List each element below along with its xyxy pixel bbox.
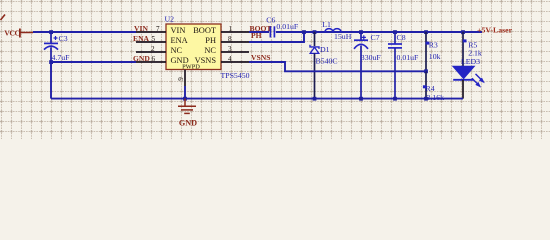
ground symbol GND: [178, 99, 197, 128]
svg-text:0.01uF: 0.01uF: [276, 22, 299, 31]
svg-text:R3: R3: [429, 40, 438, 49]
pin 7 VIN: [136, 31, 166, 33]
capacitor C3: [44, 32, 70, 62]
wire switch and output node: [276, 31, 482, 33]
svg-text:GND: GND: [133, 54, 150, 63]
LED LED3: [453, 66, 485, 98]
wire GND pin row: [51, 61, 136, 63]
svg-text:8: 8: [228, 35, 232, 43]
power port VCC: [4, 28, 33, 37]
svg-text:TPS5450: TPS5450: [221, 71, 250, 80]
svg-text:B540C: B540C: [316, 57, 338, 66]
svg-text:10k: 10k: [429, 52, 441, 61]
svg-text:NC: NC: [171, 46, 183, 55]
svg-text:C3: C3: [59, 34, 68, 43]
pin 3 NC: [221, 51, 249, 53]
svg-text:PH: PH: [205, 36, 216, 45]
svg-text:C6: C6: [266, 15, 275, 24]
pin 9 PWPD: [184, 70, 186, 86]
svg-text:6: 6: [152, 55, 156, 63]
svg-text:5: 5: [152, 35, 156, 43]
pin 6 GND: [136, 61, 166, 63]
junction R5: [461, 30, 465, 34]
svg-text:U2: U2: [165, 15, 175, 24]
svg-text:9: 9: [177, 77, 185, 81]
resistor R4: [423, 71, 444, 102]
svg-text:BOOT: BOOT: [193, 26, 216, 35]
junction VSNS feedback: [424, 69, 428, 73]
svg-text:3: 3: [228, 45, 232, 53]
svg-text:PWPD: PWPD: [182, 63, 200, 70]
junction PH riser: [302, 30, 306, 34]
svg-text:4: 4: [228, 55, 232, 63]
pin 1 BOOT: [221, 31, 249, 33]
svg-text:NC: NC: [204, 46, 216, 55]
junction C8: [393, 30, 397, 34]
svg-text:ENA: ENA: [133, 34, 150, 43]
resistor R3: [426, 32, 441, 71]
svg-text:VCC: VCC: [4, 28, 19, 37]
pin 5 ENA: [136, 41, 166, 43]
diode D1: [310, 32, 338, 99]
svg-text:GND: GND: [179, 118, 197, 127]
svg-text:330uF: 330uF: [361, 53, 382, 62]
svg-text:VSNS: VSNS: [251, 53, 270, 62]
junction C7 rail: [359, 97, 363, 101]
resistor R5: [461, 32, 482, 66]
svg-text:0.01uF: 0.01uF: [397, 53, 420, 62]
svg-text:VIN: VIN: [134, 24, 148, 33]
ground rail wire: [51, 98, 463, 100]
pin 4 VSNS: [221, 61, 249, 63]
svg-text:2: 2: [151, 45, 155, 53]
junction C7: [359, 30, 363, 34]
svg-text:+5V-Laser: +5V-Laser: [477, 26, 513, 35]
inductor L1: [322, 20, 351, 41]
wire pin 9 to ground rail: [184, 86, 186, 99]
junction R3: [424, 30, 428, 34]
junction at C3 bottom / GND pin wire: [49, 60, 53, 64]
capacitor C6: [266, 15, 299, 37]
capacitor C8: [388, 32, 419, 99]
svg-text:R4: R4: [426, 84, 435, 93]
svg-text:15uH: 15uH: [334, 32, 352, 41]
wire C3 down to ground rail: [50, 62, 52, 99]
capacitor C7: [354, 32, 381, 99]
junction C8 rail: [393, 97, 397, 101]
svg-text:ENA: ENA: [171, 36, 188, 45]
wire VCC to VIN pin: [33, 31, 136, 33]
svg-text:C8: C8: [397, 33, 406, 42]
wire LED cathode to rail: [462, 98, 464, 100]
wire BOOT pin to C6: [249, 31, 269, 33]
IC U2 TPS5450: [165, 15, 250, 81]
junction R4 rail: [424, 97, 428, 101]
junction D1 anode rail: [313, 97, 317, 101]
junction D1: [313, 30, 317, 34]
junction at C3 top: [49, 30, 53, 34]
junction GND symbol: [183, 97, 187, 101]
svg-text:C7: C7: [371, 33, 380, 42]
svg-text:LED3: LED3: [461, 57, 480, 66]
wire VSNS pin: [249, 62, 426, 71]
pin 2 NC: [136, 51, 166, 53]
svg-text:PH: PH: [251, 31, 262, 40]
svg-text:7: 7: [156, 25, 160, 33]
svg-text:L1: L1: [322, 20, 331, 29]
svg-text:4.7uF: 4.7uF: [52, 53, 71, 62]
svg-text:VIN: VIN: [171, 26, 186, 35]
pin 8 PH: [221, 41, 249, 43]
svg-text:D1: D1: [320, 45, 330, 54]
wire PH pin: [249, 32, 304, 42]
svg-text:1: 1: [229, 25, 233, 33]
